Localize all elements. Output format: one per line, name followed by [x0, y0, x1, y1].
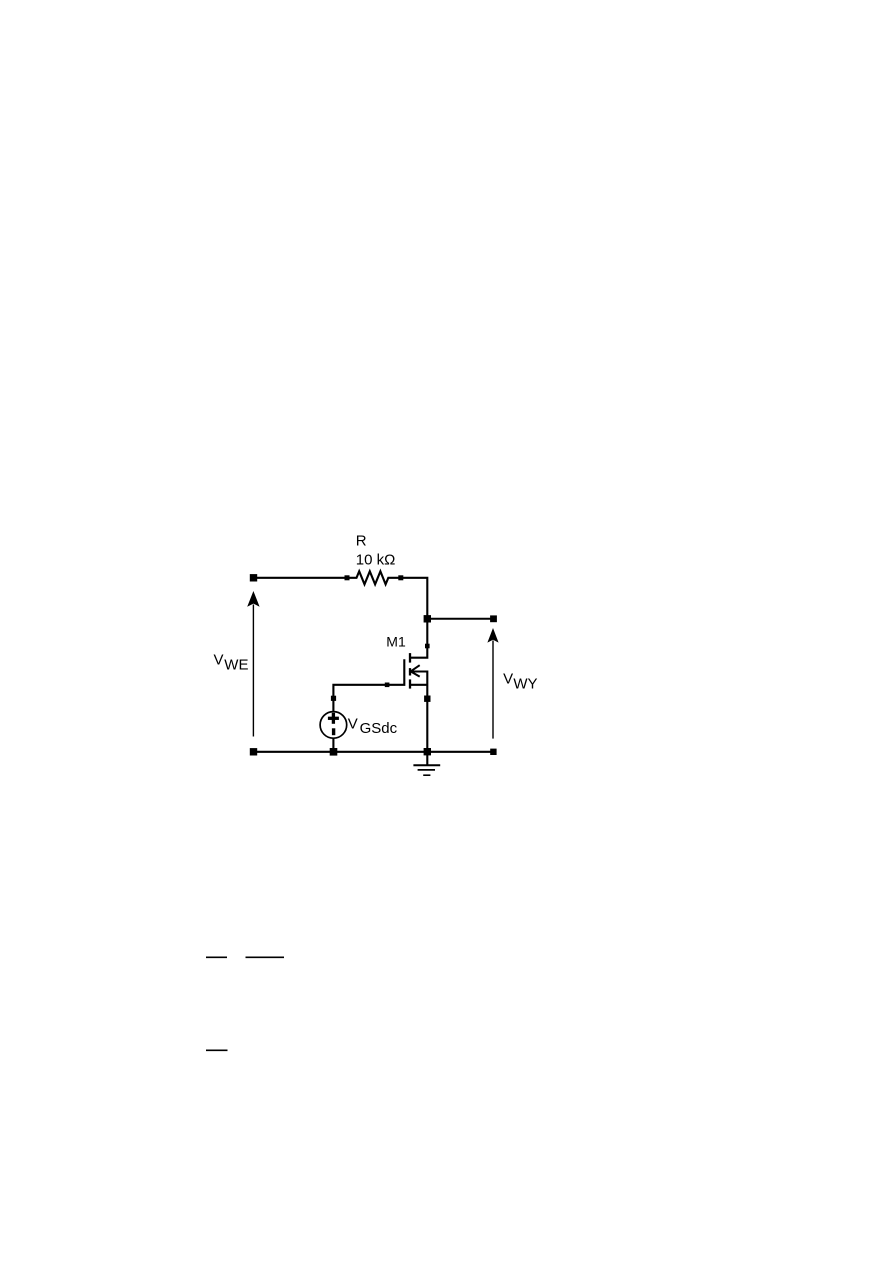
- svg-text:V: V: [214, 651, 224, 668]
- svg-text:GSdc: GSdc: [360, 720, 398, 737]
- svg-text:WY: WY: [513, 676, 537, 693]
- svg-text:M1: M1: [386, 634, 406, 650]
- svg-text:V: V: [503, 671, 513, 688]
- svg-text:R: R: [356, 533, 367, 550]
- svg-text:10 kΩ: 10 kΩ: [356, 551, 396, 568]
- svg-text:V: V: [348, 715, 358, 732]
- svg-text:WE: WE: [224, 656, 248, 673]
